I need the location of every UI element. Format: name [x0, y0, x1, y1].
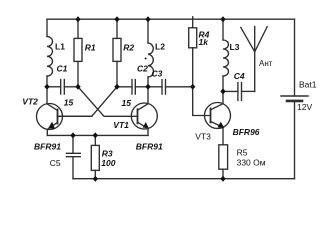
node dot L3 top — [220, 16, 225, 22]
node dot R1 top — [75, 16, 80, 22]
svg-text:Bat1: Bat1 — [299, 80, 317, 90]
wire C2 to node D — [135, 86, 148, 88]
wire bottom ground rail — [73, 178, 295, 180]
capacitor C1 — [61, 80, 65, 95]
node dot B (C1/R1/diagonal) — [75, 84, 80, 90]
transistor VT1 base bar — [137, 109, 139, 123]
svg-text:C2: C2 — [137, 64, 148, 74]
node dot L2 tap — [145, 58, 147, 60]
antenna stem — [254, 27, 256, 92]
svg-text:100: 100 — [101, 158, 115, 168]
svg-text:Ант: Ант — [259, 59, 273, 68]
node dot D (L2/C2/C3/VT1 collector) — [145, 84, 150, 90]
wire R1 bottom lead — [77, 61, 79, 86]
wire node C to C2 — [117, 86, 132, 88]
capacitor C4 — [238, 83, 242, 101]
transistor VT2 collector — [47, 87, 58, 111]
wire L2 bottom — [147, 77, 149, 87]
wire R2 top lead — [116, 19, 118, 38]
antenna right arm — [255, 27, 268, 52]
transistor VT2 base wire — [58, 115, 92, 117]
node dot R3 bottom — [93, 176, 98, 182]
svg-text:C3: C3 — [152, 69, 163, 79]
wire L1 bottom — [46, 76, 48, 87]
wire left branch top — [46, 19, 48, 36]
transistor VT3 emitter arrow — [217, 122, 224, 128]
wire R3 bottom lead — [94, 170, 96, 178]
inductor L1 — [47, 37, 53, 77]
svg-text:VT3: VT3 — [195, 132, 211, 142]
node dot A (L1/C1/VT2 collector) — [44, 84, 49, 90]
capacitor C5 — [66, 153, 80, 156]
svg-text:R1: R1 — [85, 43, 96, 53]
wire node D to C3 — [148, 86, 162, 88]
wire battery top lead — [294, 19, 296, 96]
svg-text:C4: C4 — [234, 71, 245, 81]
resistor R3 — [91, 145, 99, 170]
svg-text:VT2: VT2 — [22, 97, 38, 107]
transistor VT1 emitter — [138, 122, 149, 135]
transistor VT3 emitter — [211, 121, 224, 144]
transistor VT2 emitter — [47, 122, 57, 135]
wire emitter rail — [47, 134, 148, 136]
node dot R5 bottom — [220, 176, 225, 182]
transistor VT3 circle — [205, 103, 231, 129]
svg-text:C1: C1 — [57, 63, 68, 73]
wire top supply rail — [47, 18, 295, 20]
transistor VT1 collector — [138, 87, 149, 110]
wire node A to C1 — [47, 86, 61, 88]
node dot R3 top — [93, 132, 98, 138]
node dot C5 top — [70, 132, 75, 138]
wire C1 to node B — [64, 86, 78, 88]
wire R2 bottom lead — [116, 61, 118, 86]
wire R5 bottom lead — [222, 169, 224, 179]
transistor VT3 base bar — [210, 109, 212, 123]
inductor L2 — [148, 43, 153, 77]
svg-text:15: 15 — [64, 98, 74, 108]
svg-text:L3: L3 — [230, 42, 240, 52]
transistor VT1 circle — [131, 103, 157, 129]
svg-text:BFR96: BFR96 — [233, 127, 260, 137]
wire L2 top — [147, 19, 149, 43]
wire R4 top lead — [192, 17, 194, 28]
wire L3 top — [222, 19, 224, 40]
wire diagonal node C to VT2 base — [58, 87, 118, 117]
node dot R2 top — [114, 16, 119, 22]
svg-text:C5: C5 — [50, 158, 61, 168]
svg-text:BFR91: BFR91 — [34, 142, 61, 152]
wire R3 top lead — [94, 135, 96, 145]
resistor R2 — [113, 38, 121, 61]
svg-text:15: 15 — [122, 98, 132, 108]
node dot C (R2/C2/diagonal) — [114, 84, 119, 90]
node dot F (L3/C4/VT3 collector) — [220, 88, 225, 94]
antenna left arm — [241, 27, 255, 51]
svg-text:L1: L1 — [55, 41, 65, 51]
battery Bat1 positive plate — [281, 95, 308, 97]
wire L3 bottom to node F — [222, 76, 224, 91]
wire node E to VT3 base — [193, 87, 211, 116]
resistor R1 — [74, 38, 82, 61]
svg-text:12V: 12V — [297, 102, 312, 112]
node dot E (C3/R4/VT3 base) — [190, 84, 195, 90]
svg-text:L2: L2 — [155, 41, 165, 51]
svg-text:1k: 1k — [199, 37, 210, 47]
resistor R5 — [219, 145, 228, 169]
node dot L2 top — [145, 16, 150, 22]
wire C5 top lead — [72, 135, 74, 153]
svg-text:BFR91: BFR91 — [136, 141, 163, 151]
wire R4 bottom lead — [192, 48, 194, 87]
wire R1 top lead — [77, 19, 79, 38]
wire diagonal node B to VT1 base — [78, 87, 138, 117]
wire battery bottom lead — [294, 102, 296, 179]
wire C5 bottom lead — [72, 157, 74, 179]
inductor L3 — [223, 40, 229, 76]
transistor VT1 emitter arrow — [143, 122, 149, 128]
svg-text:R5: R5 — [237, 148, 248, 158]
wire C4 to antenna stem — [242, 90, 255, 92]
wire node F to C4 — [223, 90, 238, 92]
battery Bat1 negative plate — [287, 100, 302, 103]
capacitor C2 — [132, 80, 135, 95]
wire C3 to node E — [166, 86, 193, 88]
capacitor C3 — [162, 80, 166, 95]
transistor VT2 emitter arrow — [48, 122, 55, 129]
resistor R4 — [189, 28, 197, 48]
svg-text:330 Ом: 330 Ом — [237, 157, 266, 167]
svg-text:R2: R2 — [123, 43, 134, 53]
svg-text:VT1: VT1 — [113, 120, 129, 130]
transistor VT2 base bar — [57, 110, 59, 124]
transistor VT3 collector — [211, 91, 224, 109]
transistor VT2 circle — [37, 104, 63, 130]
